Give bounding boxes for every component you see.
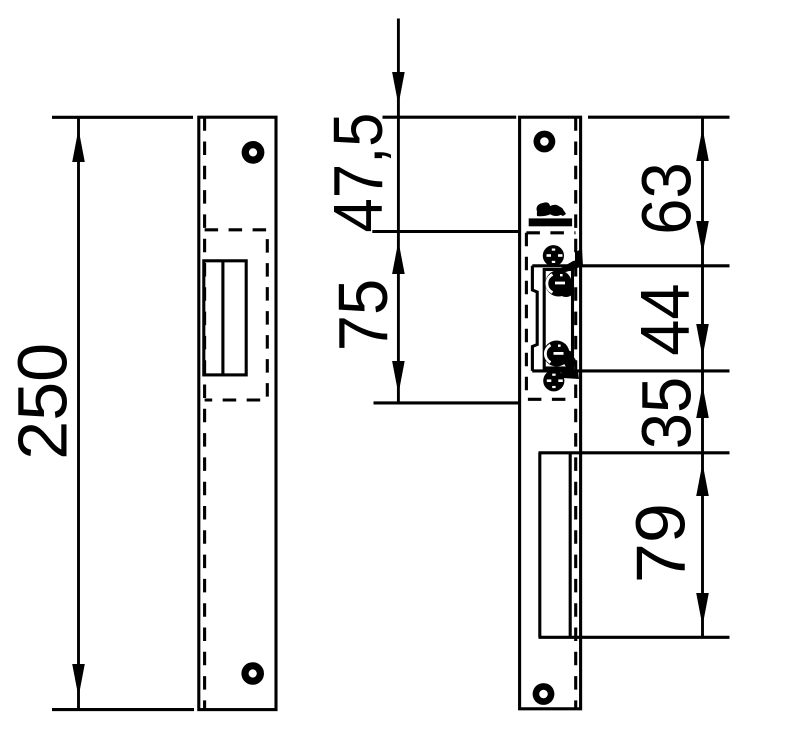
- svg-text:79: 79: [622, 503, 700, 583]
- arrow up at 79 top: [696, 463, 709, 496]
- lower cutout rectangle top line / boundary 35-79: [539, 451, 730, 454]
- dimension 250 line: [77, 117, 80, 709]
- dimension 250 arrow up: [72, 129, 85, 162]
- extension line top middle: [383, 116, 517, 119]
- hidden edge dashed line left view: [203, 117, 206, 709]
- logo bar: [529, 218, 572, 226]
- svg-text:75: 75: [325, 279, 403, 351]
- lower cutout rectangle left edge: [538, 453, 541, 638]
- logo script blob: [537, 202, 567, 216]
- dimension line 75 bottom: [374, 401, 520, 404]
- screw hole bottom right view: [533, 683, 555, 705]
- dashed cutout rectangle right view: [526, 233, 575, 399]
- latch pocket divider line: [221, 261, 224, 375]
- arrow up at 63 top: [696, 128, 709, 161]
- dimension chain line right: [701, 117, 704, 637]
- svg-text:250: 250: [4, 343, 82, 460]
- faceplate left view outline: [199, 117, 276, 709]
- dimension line 47,5 bottom: [372, 230, 520, 233]
- dimension 250 arrow down: [72, 664, 85, 697]
- keeper cavity rectangle: [544, 270, 572, 369]
- arrow down at 63 bottom: [696, 221, 709, 254]
- screw small top: [543, 245, 564, 266]
- keeper top diagonal lip: [556, 249, 583, 272]
- dimension 75 arrow up: [392, 241, 405, 274]
- screw hole top left view: [242, 141, 265, 164]
- screw small bottom: [543, 370, 564, 391]
- lower cutout rectangle bottom line / boundary 79 end: [539, 636, 730, 639]
- screw large lower: [544, 341, 575, 367]
- svg-text:63: 63: [628, 162, 706, 234]
- hidden edge dashed line right view: [574, 117, 577, 709]
- dimension 250 extension line top: [52, 116, 193, 119]
- keeper bottom line / dimension boundary 44-35: [532, 369, 729, 372]
- svg-text:47,5: 47,5: [318, 113, 397, 233]
- screw large upper: [545, 270, 574, 297]
- svg-text:35: 35: [629, 377, 707, 449]
- dimension 47,5 leader line: [397, 19, 400, 403]
- lower cutout rectangle right edge: [569, 453, 572, 638]
- latch pocket rectangle left view: [204, 261, 246, 375]
- extension line top right: [588, 116, 730, 119]
- dashed cutout rectangle left view: [205, 230, 268, 400]
- keeper bottom diagonal lip: [560, 356, 579, 379]
- svg-text:44: 44: [627, 283, 705, 355]
- screw hole top right view: [534, 131, 556, 153]
- arrow down at 44 bottom: [696, 324, 709, 357]
- dimension 75 arrow down: [392, 361, 405, 394]
- keeper left flange outline: [532, 266, 537, 371]
- arrow up at 35 top: [696, 385, 709, 418]
- strike plate right view outline: [520, 117, 581, 709]
- keeper top line / dimension boundary 63-44: [532, 264, 729, 267]
- dimension 250 extension line bottom: [52, 708, 194, 711]
- dimension 47,5 arrow down: [392, 72, 405, 105]
- arrow down at 79 bottom: [696, 593, 709, 626]
- screw hole bottom left view: [241, 662, 264, 685]
